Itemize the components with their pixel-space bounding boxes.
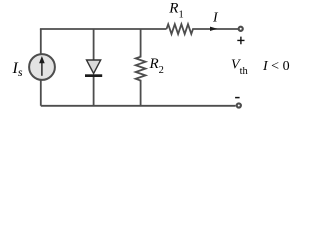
wire from R1 to terminal — [195, 28, 239, 30]
svg-text:R2: R2 — [149, 56, 164, 76]
wire diode branch bottom — [93, 76, 95, 106]
wire left branch — [40, 29, 42, 106]
diode cathode bar — [85, 74, 102, 77]
svg-text:Is: Is — [12, 60, 23, 79]
wire bottom — [41, 105, 236, 107]
svg-text:I: I — [212, 11, 219, 26]
svg-text:R1: R1 — [168, 1, 183, 21]
current arrow I on top wire — [210, 27, 217, 31]
diode D1 triangle — [87, 60, 101, 74]
terminal top — [239, 27, 243, 31]
svg-text:Vth: Vth — [231, 57, 248, 77]
current source arrow — [41, 63, 43, 76]
wire R2 branch top — [140, 29, 142, 56]
resistor R1 zigzag — [167, 24, 195, 34]
plus sign — [237, 37, 244, 45]
wire top from left corner to R1 — [40, 28, 167, 30]
resistor R2 zigzag — [136, 55, 146, 82]
svg-text:I < 0: I < 0 — [262, 59, 290, 74]
terminal bottom — [237, 103, 241, 107]
wire R2 branch bottom — [140, 81, 142, 106]
current source Is circle — [29, 54, 55, 80]
minus sign — [235, 97, 240, 99]
wire diode branch top — [93, 29, 95, 61]
